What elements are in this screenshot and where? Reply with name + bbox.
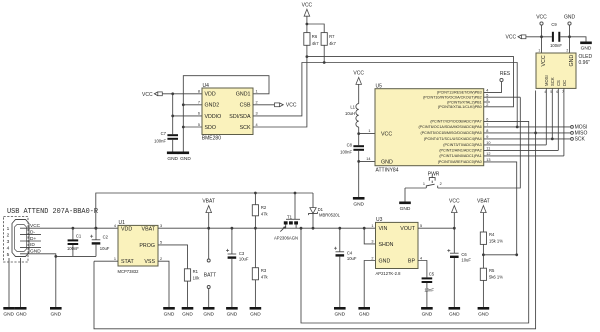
svg-text:5: 5 bbox=[420, 224, 422, 228]
svg-text:(PCINT4/T1/SCL/USCK/ADC4)PA4: (PCINT4/T1/SCL/USCK/ADC4)PA4 bbox=[424, 137, 482, 141]
svg-text:10uF: 10uF bbox=[461, 258, 471, 263]
wire USB VCC row to U1 bbox=[29, 227, 118, 229]
svg-text:D1: D1 bbox=[318, 207, 324, 212]
wire OLED pin MOSI to PA3 bbox=[545, 88, 547, 144]
svg-text:47k: 47k bbox=[261, 274, 269, 279]
wire PA1 row bbox=[484, 155, 564, 157]
wire PA4 row to SCK flag bbox=[484, 138, 571, 140]
wire BME280 GND1 loop to GND2/SDO bbox=[183, 76, 269, 152]
ground (USB shell 2) bbox=[15, 307, 27, 318]
svg-text:VDD: VDD bbox=[205, 92, 216, 98]
node VCC input flag (BME280 supply) bbox=[142, 92, 162, 98]
svg-text:5: 5 bbox=[160, 241, 162, 245]
svg-text:C4: C4 bbox=[347, 251, 353, 256]
svg-text:3: 3 bbox=[7, 239, 10, 245]
svg-text:GND: GND bbox=[353, 202, 364, 208]
svg-text:GND: GND bbox=[400, 206, 411, 212]
wire SCL net: BME SCK to R6 rail to PB0 bbox=[253, 57, 514, 127]
svg-text:4k7: 4k7 bbox=[329, 41, 336, 46]
svg-text:1: 1 bbox=[7, 226, 10, 232]
svg-text:VCC: VCC bbox=[302, 3, 313, 9]
pin numbers U3 bbox=[371, 224, 422, 260]
svg-text:C2: C2 bbox=[103, 234, 109, 239]
svg-text:GND: GND bbox=[379, 259, 391, 265]
svg-text:2: 2 bbox=[440, 182, 442, 186]
wire SHDN tie to VIN bbox=[364, 228, 375, 244]
svg-text:10k: 10k bbox=[193, 276, 201, 281]
ground (C4) bbox=[334, 307, 346, 318]
ground (C7) bbox=[167, 152, 179, 163]
svg-text:5: 5 bbox=[198, 123, 200, 127]
svg-text:VBAT: VBAT bbox=[202, 198, 215, 204]
svg-text:GND2: GND2 bbox=[205, 103, 220, 109]
pin numbers ATtiny left bbox=[366, 129, 370, 161]
svg-text:R4: R4 bbox=[489, 232, 495, 237]
resistor R1 10k bbox=[184, 269, 200, 307]
IC U4 BME280 bbox=[202, 83, 253, 142]
svg-text:RES: RES bbox=[500, 71, 511, 77]
wire USB GND to ground bbox=[29, 254, 56, 307]
svg-text:VIN: VIN bbox=[379, 226, 388, 232]
ground (ATtiny) bbox=[353, 197, 365, 208]
svg-text:47k: 47k bbox=[261, 212, 269, 217]
svg-text:U5: U5 bbox=[376, 84, 383, 90]
wire STAT loop: PA5 junction down and around to U1 STAT bbox=[94, 91, 536, 329]
svg-text:10uF: 10uF bbox=[239, 256, 249, 261]
connector BATT bbox=[204, 228, 216, 307]
wire PA3 row bbox=[484, 144, 547, 146]
svg-text:(PCINT7/ICP/OC0B/ADC7)PA7: (PCINT7/ICP/OC0B/ADC7)PA7 bbox=[430, 120, 481, 124]
svg-text:VOUT: VOUT bbox=[400, 226, 415, 232]
svg-text:AP2127K-2.8: AP2127K-2.8 bbox=[376, 271, 402, 276]
svg-text:(PCINT11/RESET/DW)PB3: (PCINT11/RESET/DW)PB3 bbox=[437, 91, 482, 95]
capacitor C3 10uF bbox=[226, 228, 249, 307]
capacitor C7 bbox=[154, 94, 178, 152]
svg-text:7: 7 bbox=[198, 101, 200, 105]
svg-text:15k 1%: 15k 1% bbox=[489, 239, 503, 244]
svg-text:(PCINT5/OC1B/MISO/DO/ADC5)PA5: (PCINT5/OC1B/MISO/DO/ADC5)PA5 bbox=[420, 131, 481, 135]
wire VDDIO row bbox=[173, 115, 202, 117]
ground (R1) bbox=[182, 307, 194, 318]
resistor R5 5k6 1% bbox=[480, 268, 503, 307]
svg-text:VDD: VDD bbox=[121, 226, 132, 232]
svg-text:GND: GND bbox=[250, 312, 261, 318]
svg-text:U4: U4 bbox=[203, 83, 210, 89]
pin numbers BME280 left 8,7,6,5 bbox=[198, 90, 200, 127]
svg-text:C1: C1 bbox=[76, 234, 82, 239]
svg-text:4: 4 bbox=[256, 123, 258, 127]
pin labels USB bbox=[30, 223, 41, 255]
node VCC input flag (OLED supply) bbox=[506, 34, 526, 40]
svg-text:BATT: BATT bbox=[204, 272, 216, 278]
svg-text:3: 3 bbox=[160, 224, 162, 228]
wire PA2 row bbox=[484, 149, 559, 151]
connector OLED 0.96" bbox=[536, 53, 593, 88]
node VCC pin (OLED header) bbox=[536, 15, 547, 53]
svg-text:GND: GND bbox=[581, 46, 592, 52]
svg-text:100nF: 100nF bbox=[154, 139, 166, 144]
svg-text:R6: R6 bbox=[312, 34, 318, 39]
IC U1 MCP73832 bbox=[118, 220, 159, 274]
svg-text:CS: CS bbox=[556, 80, 561, 86]
ground (C6) bbox=[449, 307, 461, 318]
wire USB shell pins bbox=[9, 258, 21, 307]
svg-text:GND1: GND1 bbox=[236, 92, 251, 98]
resistor R6 4k7 bbox=[304, 24, 319, 57]
svg-text:CSB: CSB bbox=[240, 103, 251, 109]
svg-text:2: 2 bbox=[486, 103, 488, 107]
svg-text:SHDN: SHDN bbox=[379, 242, 394, 248]
svg-text:GND: GND bbox=[359, 312, 370, 318]
svg-text:4: 4 bbox=[7, 245, 10, 251]
node RES bbox=[484, 71, 511, 92]
svg-text:GND: GND bbox=[449, 312, 460, 318]
svg-text:100nF: 100nF bbox=[550, 43, 562, 48]
svg-text:VCC: VCC bbox=[449, 198, 460, 204]
capacitor C2 10uF bbox=[90, 228, 110, 256]
ground (OLED) bbox=[580, 42, 592, 52]
wire VBAT rail bbox=[158, 227, 376, 229]
ground (PWR switch) bbox=[399, 188, 411, 212]
svg-text:DC: DC bbox=[562, 80, 567, 86]
svg-text:(PCINT10/INT0/OC0A/CKOUT)PB2: (PCINT10/INT0/OC0A/CKOUT)PB2 bbox=[423, 96, 482, 100]
svg-text:GND: GND bbox=[203, 312, 214, 318]
wire OLED pin RES to PA2 bbox=[557, 88, 559, 150]
svg-text:VCC: VCC bbox=[536, 15, 547, 21]
svg-text:GND: GND bbox=[227, 312, 238, 318]
wire GND2 row bbox=[183, 104, 202, 106]
svg-text:3: 3 bbox=[256, 112, 258, 116]
svg-text:10uF: 10uF bbox=[100, 246, 110, 251]
svg-text:GND: GND bbox=[569, 55, 575, 67]
pin numbers BME280 right 1,2,3,4 bbox=[256, 90, 258, 127]
svg-text:GND: GND bbox=[182, 312, 193, 318]
svg-text:GND: GND bbox=[50, 312, 61, 318]
svg-text:MBR0520L: MBR0520L bbox=[319, 212, 341, 217]
svg-text:10uF: 10uF bbox=[347, 256, 357, 261]
wire BP to C5 bbox=[418, 261, 427, 278]
svg-text:C9: C9 bbox=[551, 22, 557, 27]
wire PA7 to PWR switch loop and VBAT rail bbox=[301, 121, 529, 323]
svg-text:2: 2 bbox=[371, 256, 373, 260]
resistor R3 47k bbox=[252, 228, 268, 307]
ground (BME280 SDO/GND) bbox=[178, 152, 192, 163]
svg-text:5k6 1%: 5k6 1% bbox=[489, 275, 503, 280]
svg-text:GND: GND bbox=[180, 156, 191, 162]
svg-text:VBAT: VBAT bbox=[477, 198, 490, 204]
svg-text:2: 2 bbox=[7, 233, 10, 239]
svg-text:GND: GND bbox=[422, 312, 433, 318]
svg-text:VCC: VCC bbox=[506, 34, 517, 40]
resistor R2 47k bbox=[252, 193, 268, 228]
capacitor C4 10uF bbox=[334, 228, 357, 307]
svg-text:8: 8 bbox=[198, 90, 200, 94]
svg-text:(PCINT6/OC1A/SDA/MOSI/ADC6)PA6: (PCINT6/OC1A/SDA/MOSI/ADC6)PA6 bbox=[418, 125, 481, 129]
capacitor C9 100nF bbox=[550, 22, 562, 48]
svg-text:C6: C6 bbox=[461, 252, 467, 257]
svg-text:(PCINT1/AIN0/ADC1)PA1: (PCINT1/AIN0/ADC1)PA1 bbox=[439, 154, 481, 158]
wire PB2 row to PWR switch bbox=[484, 96, 521, 98]
wire SDA net: BME SDI/SDA to R7 rail to PA6 bbox=[253, 63, 517, 127]
svg-text:PROG: PROG bbox=[139, 243, 155, 249]
node MOSI flag bbox=[571, 125, 588, 131]
svg-text:4: 4 bbox=[114, 224, 116, 228]
inductor L1 10uH bbox=[345, 104, 359, 146]
node MISO flag bbox=[571, 131, 588, 137]
svg-text:VCC: VCC bbox=[541, 55, 547, 66]
svg-text:BME280: BME280 bbox=[202, 136, 221, 142]
capacitor C5 10nF bbox=[422, 271, 435, 307]
svg-text:1: 1 bbox=[368, 129, 370, 133]
svg-text:GND: GND bbox=[3, 312, 14, 318]
wire VSS to ground bbox=[158, 261, 169, 307]
svg-text:4: 4 bbox=[420, 256, 422, 260]
svg-text:100nF: 100nF bbox=[67, 246, 79, 251]
wire ATtiny VCC pin bbox=[359, 133, 375, 135]
svg-text:MOSI: MOSI bbox=[544, 75, 549, 86]
svg-text:VSS: VSS bbox=[144, 259, 155, 265]
svg-text:3: 3 bbox=[371, 240, 373, 244]
svg-text:GND: GND bbox=[564, 15, 576, 21]
svg-text:5: 5 bbox=[7, 252, 10, 258]
wire PROG to R1 bbox=[158, 245, 188, 269]
power VBAT arrow (divider) bbox=[477, 198, 490, 232]
svg-text:10nF: 10nF bbox=[424, 288, 434, 293]
svg-text:L1: L1 bbox=[350, 105, 355, 110]
capacitor C8 100nF bbox=[340, 142, 364, 197]
wire PB1 stub bbox=[484, 101, 490, 103]
node GND pin (OLED header) bbox=[564, 15, 576, 53]
node VCC output flag (CSB) bbox=[253, 103, 297, 109]
wire PA5 row to MISO flag bbox=[484, 132, 571, 134]
svg-text:R1: R1 bbox=[193, 269, 199, 274]
svg-text:C7: C7 bbox=[161, 131, 167, 136]
IC U5 ATTINY84 bbox=[375, 84, 484, 174]
wire OLED GND rail bbox=[560, 37, 586, 42]
svg-text:C3: C3 bbox=[239, 251, 245, 256]
ground (U3 GND) bbox=[358, 307, 370, 318]
wire USB data stubs bbox=[29, 235, 41, 248]
svg-text:C5: C5 bbox=[429, 271, 435, 276]
svg-text:VCC: VCC bbox=[142, 92, 153, 98]
svg-text:2: 2 bbox=[256, 101, 258, 105]
svg-text:2: 2 bbox=[160, 257, 162, 261]
svg-text:MCP73832: MCP73832 bbox=[118, 269, 140, 274]
ground (USB GND) bbox=[50, 307, 62, 318]
svg-text:100nF: 100nF bbox=[340, 150, 352, 155]
svg-text:SDI/SDA: SDI/SDA bbox=[229, 114, 251, 120]
ground (C3) bbox=[226, 307, 238, 318]
wire OLED VCC rail bbox=[526, 36, 552, 38]
svg-text:SDO: SDO bbox=[205, 125, 216, 131]
resistor R4 15k 1% bbox=[480, 232, 503, 268]
svg-text:C8: C8 bbox=[347, 142, 353, 147]
svg-text:(PCINT8/XTAL1/CLKI)PB0: (PCINT8/XTAL1/CLKI)PB0 bbox=[438, 105, 482, 109]
svg-text:VCC: VCC bbox=[353, 70, 364, 76]
ground (R5) bbox=[478, 307, 490, 318]
svg-text:R3: R3 bbox=[261, 268, 267, 273]
svg-text:BP: BP bbox=[408, 259, 416, 265]
pin numbers U1 bbox=[114, 224, 162, 261]
svg-text:2: 2 bbox=[566, 49, 568, 53]
svg-text:1: 1 bbox=[371, 224, 373, 228]
svg-text:VBAT: VBAT bbox=[142, 226, 156, 232]
IC U3 AP2127K-2.8 bbox=[376, 217, 419, 276]
svg-text:VCC: VCC bbox=[381, 132, 392, 138]
switch PWR bbox=[405, 97, 520, 188]
svg-text:R7: R7 bbox=[329, 34, 335, 39]
pin numbers OLED bbox=[538, 49, 568, 94]
svg-text:USB ATTEND 207A-BBA0-R: USB ATTEND 207A-BBA0-R bbox=[7, 208, 98, 216]
svg-text:10uH: 10uH bbox=[345, 111, 355, 116]
pin numbers USB 1-5 bbox=[7, 226, 10, 258]
wire STAT row bbox=[94, 260, 118, 262]
transistor T1 AP2306AGN bbox=[274, 193, 300, 241]
svg-text:VDDIO: VDDIO bbox=[205, 114, 222, 120]
power VBAT arrow bbox=[202, 198, 215, 228]
wire VCC to BME280 VDD bbox=[162, 93, 202, 95]
svg-text:R5: R5 bbox=[489, 268, 495, 273]
svg-text:1: 1 bbox=[538, 49, 540, 53]
power VCC arrow (pull-up supply) bbox=[302, 3, 313, 24]
svg-text:U1: U1 bbox=[119, 220, 126, 226]
svg-text:PWR: PWR bbox=[428, 172, 440, 178]
svg-text:(PCINT3/T0/ADC3)PA3: (PCINT3/T0/ADC3)PA3 bbox=[443, 143, 481, 147]
connector USB ATTEND 207A-BBA0-R bbox=[4, 208, 98, 262]
svg-text:1: 1 bbox=[114, 257, 116, 261]
power VCC arrow (regulator output) bbox=[449, 198, 460, 228]
svg-text:GND: GND bbox=[16, 312, 27, 318]
svg-text:GND: GND bbox=[164, 312, 175, 318]
wire VOUT rail bbox=[418, 227, 454, 229]
ground (C5) bbox=[421, 307, 433, 318]
svg-text:U3: U3 bbox=[376, 217, 383, 223]
svg-text:GND: GND bbox=[334, 312, 345, 318]
svg-text:4k7: 4k7 bbox=[312, 41, 319, 46]
wire PA0 row to battery divider bbox=[483, 162, 516, 255]
svg-text:VCC: VCC bbox=[286, 103, 297, 109]
wire gate rail (USB power sense) bbox=[96, 193, 313, 228]
svg-text:SCK: SCK bbox=[240, 125, 251, 131]
wire OLED pin SCK to PA4 bbox=[551, 88, 553, 138]
wire ATtiny GND pin bbox=[359, 160, 375, 162]
pin numbers ATtiny right bbox=[486, 89, 490, 163]
ground (U1 VSS) bbox=[163, 307, 175, 318]
wire U3 GND to ground bbox=[364, 261, 375, 308]
svg-text:STAT: STAT bbox=[121, 259, 135, 265]
wire pullup tops bbox=[307, 24, 324, 33]
svg-text:GND: GND bbox=[381, 159, 393, 165]
diode D1 MBR0520L bbox=[309, 193, 341, 228]
svg-text:14: 14 bbox=[366, 157, 370, 161]
ground (BATT) bbox=[203, 307, 215, 318]
svg-text:1: 1 bbox=[423, 182, 425, 186]
capacitor C1 100nF bbox=[67, 228, 82, 256]
svg-text:(PCINT9/XTAL2)PB1: (PCINT9/XTAL2)PB1 bbox=[447, 100, 482, 104]
capacitor C6 10uF bbox=[447, 228, 471, 307]
resistor R7 4k7 bbox=[321, 33, 336, 63]
ground (R3) bbox=[250, 307, 262, 318]
svg-text:AP2306AGN: AP2306AGN bbox=[274, 236, 298, 241]
power VCC arrow (ATtiny supply) bbox=[353, 70, 364, 103]
svg-text:SCK: SCK bbox=[550, 77, 555, 86]
svg-text:ATTINY84: ATTINY84 bbox=[376, 168, 399, 174]
svg-text:GND: GND bbox=[478, 312, 489, 318]
ground (USB shell 1) bbox=[3, 307, 15, 318]
node SCK flag bbox=[571, 137, 586, 143]
svg-text:SCK: SCK bbox=[575, 137, 586, 143]
svg-text:1: 1 bbox=[256, 90, 258, 94]
wire OLED pin DC to PA1 bbox=[563, 88, 565, 155]
svg-text:(PCINT0/AREF/ADC0)PA0: (PCINT0/AREF/ADC0)PA0 bbox=[438, 160, 482, 164]
svg-text:GND: GND bbox=[167, 156, 178, 162]
svg-text:0.96": 0.96" bbox=[579, 60, 591, 66]
wire SDO row bbox=[183, 126, 202, 128]
wire PA6 row to MOSI flag bbox=[484, 126, 571, 128]
svg-text:(PCINT2/AIN1/ADC2)PA2: (PCINT2/AIN1/ADC2)PA2 bbox=[439, 149, 481, 153]
svg-text:6: 6 bbox=[198, 112, 200, 116]
wire C1/C2 ground rail bbox=[56, 255, 96, 257]
svg-text:R2: R2 bbox=[261, 205, 267, 210]
